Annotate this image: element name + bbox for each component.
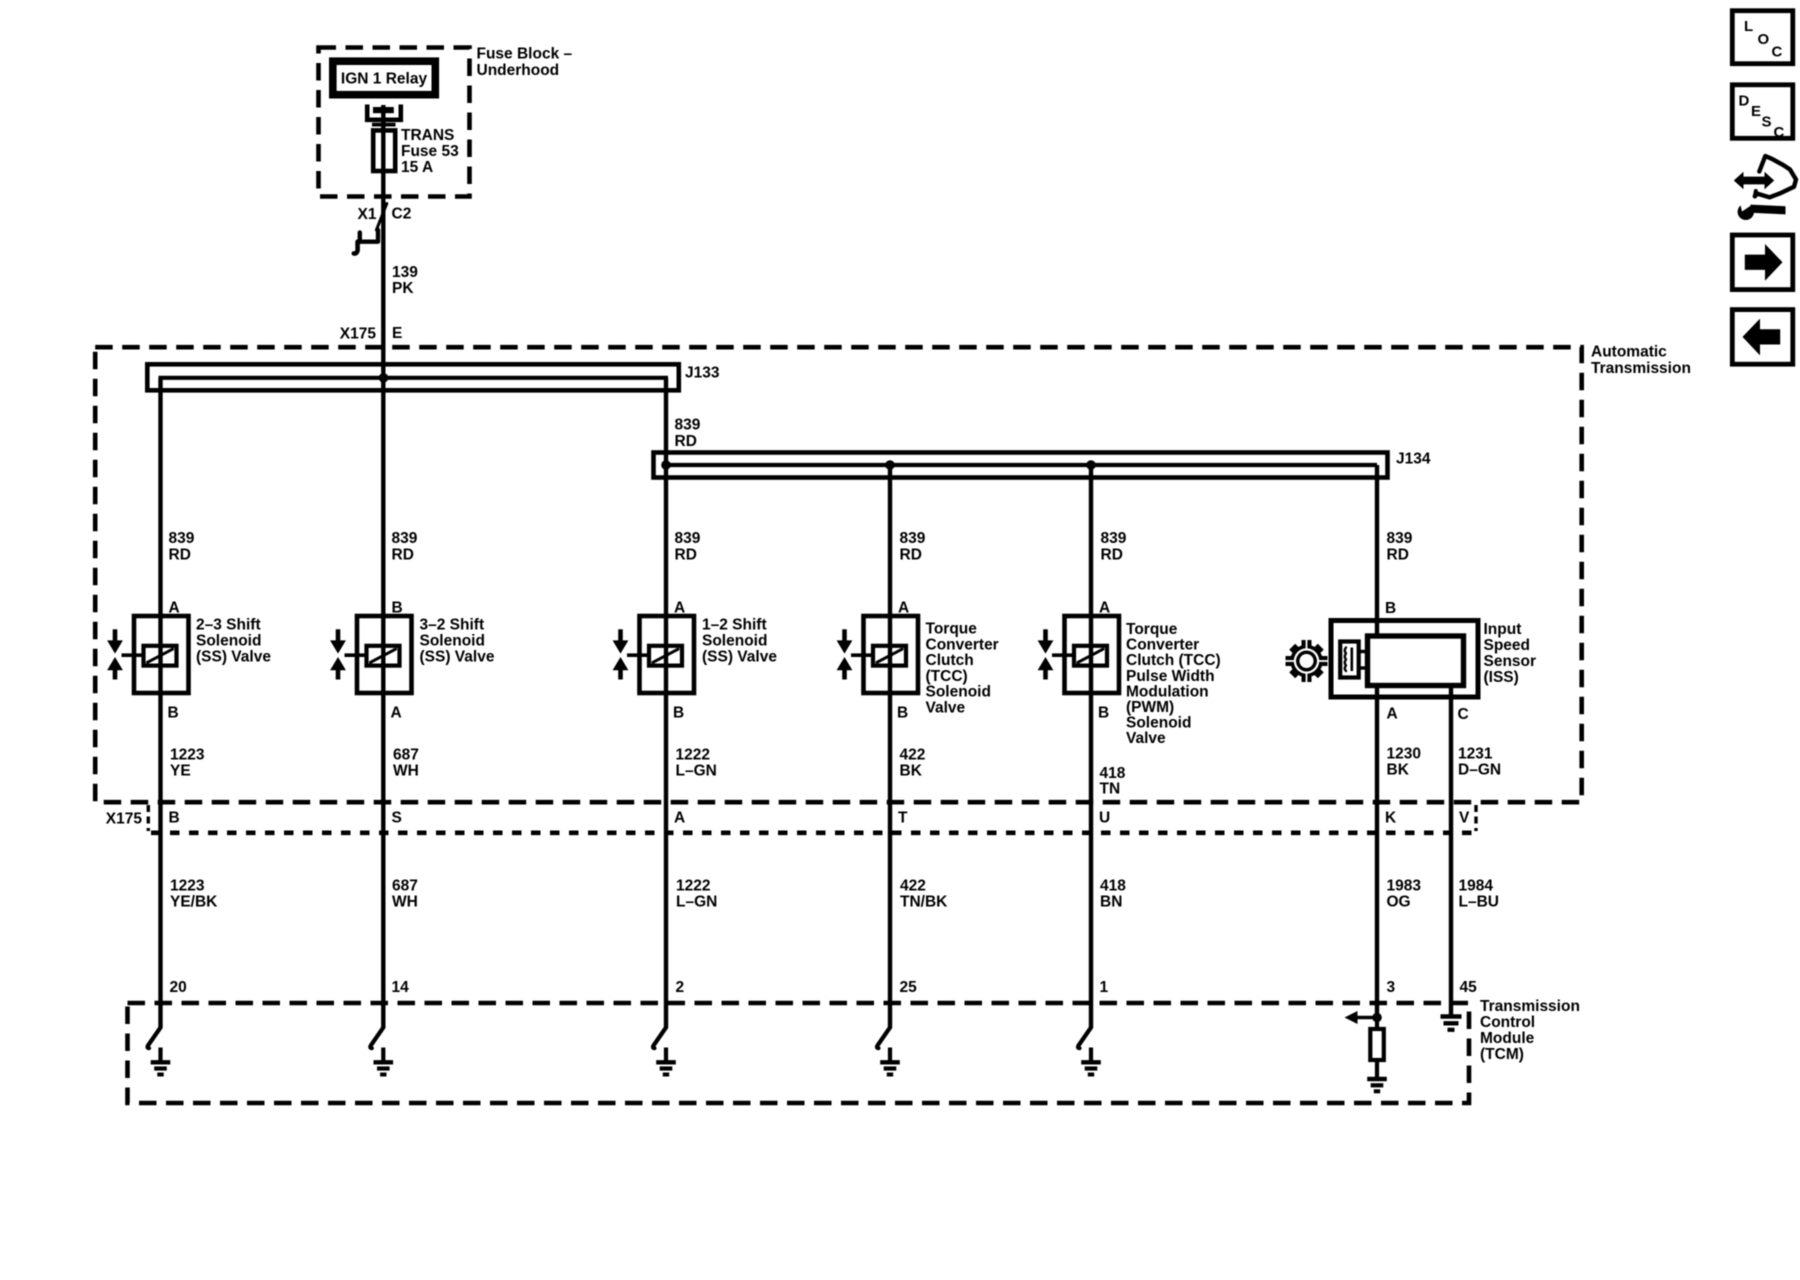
svg-text:Module: Module — [1480, 1030, 1535, 1047]
svg-text:PK: PK — [392, 280, 414, 297]
svg-text:C: C — [1772, 43, 1783, 60]
wire 1231/1984 from ISS pin C to TCM pin 45 — [1449, 684, 1453, 1016]
1-2 shift solenoid: body box — [640, 616, 695, 693]
connector hook symbol — [359, 230, 378, 242]
TCM pin 3 internal: pull-up resistor — [1375, 1018, 1379, 1030]
ISS inner body box — [1368, 636, 1464, 686]
svg-text:S: S — [1762, 113, 1772, 130]
svg-text:418: 418 — [1100, 765, 1126, 782]
2-3 shift solenoid: coil element — [144, 646, 177, 666]
svg-text:TN/BK: TN/BK — [900, 894, 948, 911]
svg-text:(ISS): (ISS) — [1484, 669, 1519, 686]
svg-text:(PWM): (PWM) — [1126, 699, 1174, 716]
transmission control module (TCM) dashed box — [128, 1003, 1470, 1103]
svg-text:1230: 1230 — [1387, 746, 1421, 763]
TCM driver circuit 14: ground symbol — [381, 1048, 385, 1063]
svg-text:BK: BK — [1387, 762, 1410, 779]
svg-text:A: A — [391, 705, 402, 722]
svg-text:Underhood: Underhood — [477, 62, 560, 79]
relay IGN 1 Relay — [333, 61, 436, 94]
fuse TRANS Fuse 53 15 A — [372, 123, 396, 127]
svg-text:Fuse Block –: Fuse Block – — [477, 46, 573, 63]
svg-text:Solenoid: Solenoid — [196, 633, 261, 650]
svg-text:L–GN: L–GN — [676, 763, 717, 780]
TCM driver circuit 1: switch contact — [1078, 1028, 1091, 1049]
svg-text:O: O — [1758, 31, 1770, 48]
svg-text:Converter: Converter — [926, 636, 999, 653]
2-3 shift solenoid: hydraulic valve symbol — [113, 629, 118, 642]
svg-text:Sensor: Sensor — [1484, 653, 1537, 670]
svg-text:Input: Input — [1484, 621, 1522, 638]
svg-text:RD: RD — [169, 547, 191, 564]
connector X175 right end cap — [1474, 805, 1477, 831]
junction J134 left — [661, 460, 671, 470]
sidebar icon: forward arrow button — [1732, 235, 1793, 290]
TCM pin 45 internal: ground symbol — [1441, 1014, 1462, 1019]
svg-text:C2: C2 — [392, 205, 412, 222]
svg-text:418: 418 — [1100, 878, 1126, 895]
svg-text:Fuse 53: Fuse 53 — [401, 143, 459, 160]
svg-text:B: B — [168, 705, 179, 722]
wire: relay through fuse to connector X1 — [381, 105, 385, 347]
svg-text:(TCC): (TCC) — [926, 668, 968, 685]
ISS outer housing box — [1331, 621, 1478, 698]
svg-text:422: 422 — [900, 878, 926, 895]
svg-text:Transmission: Transmission — [1591, 360, 1691, 377]
wire circuit 1222 (1-2 shift solenoid branch, J133 to J134 to TCM) — [664, 378, 668, 1028]
svg-text:Pulse Width: Pulse Width — [1126, 668, 1215, 685]
svg-text:X1: X1 — [358, 206, 377, 223]
svg-text:L: L — [1744, 18, 1753, 35]
wire 839 RD to ISS pin B — [1375, 465, 1379, 638]
svg-text:Solenoid: Solenoid — [1126, 715, 1191, 732]
svg-text:L–GN: L–GN — [676, 894, 717, 911]
svg-text:U: U — [1099, 810, 1110, 827]
svg-text:3: 3 — [1387, 979, 1396, 996]
svg-text:3–2 Shift: 3–2 Shift — [420, 617, 485, 634]
svg-text:(TCM): (TCM) — [1480, 1046, 1524, 1063]
svg-text:(SS) Valve: (SS) Valve — [196, 649, 271, 666]
wire 1230/1983 from ISS pin A to TCM pin 3 — [1375, 684, 1379, 1018]
svg-text:OG: OG — [1387, 894, 1411, 911]
svg-text:E: E — [392, 325, 402, 342]
wire circuit 418 (TCC PWM solenoid branch) — [1089, 465, 1093, 1028]
svg-text:Automatic: Automatic — [1591, 344, 1667, 361]
svg-text:1983: 1983 — [1387, 878, 1422, 895]
svg-text:BN: BN — [1100, 894, 1122, 911]
TCM driver circuit 20: ground symbol — [158, 1048, 162, 1063]
TCM driver circuit 14: switch contact — [370, 1028, 383, 1049]
svg-text:WH: WH — [393, 763, 419, 780]
TCC solenoid: coil stub line — [851, 653, 873, 657]
wire circuit 422 (TCC solenoid branch) — [888, 465, 892, 1028]
relay output terminal (female/male) — [367, 105, 401, 120]
junction J134 at 422 branch — [885, 460, 895, 470]
svg-text:15 A: 15 A — [401, 159, 433, 176]
svg-text:B: B — [1098, 705, 1109, 722]
svg-text:Converter: Converter — [1126, 637, 1199, 654]
svg-text:839: 839 — [675, 417, 701, 434]
svg-text:D: D — [1739, 93, 1750, 110]
sidebar icon: DESC button — [1732, 85, 1793, 139]
TCM pin 3 internal: junction — [1372, 1013, 1382, 1023]
svg-text:X175: X175 — [340, 326, 377, 343]
TCM driver circuit 20: switch contact — [148, 1028, 161, 1049]
svg-text:422: 422 — [900, 747, 926, 764]
svg-text:A: A — [1387, 706, 1398, 723]
TCM driver circuit 1: ground symbol — [1089, 1048, 1093, 1063]
junction J134 at 418 branch — [1086, 460, 1096, 470]
svg-text:V: V — [1459, 810, 1470, 827]
svg-text:1231: 1231 — [1458, 746, 1493, 763]
fuse block - underhood dashed box — [319, 48, 470, 197]
TCC PWM solenoid: hydraulic valve symbol — [1043, 629, 1048, 642]
input speed sensor (ISS): gear icon — [1286, 640, 1328, 682]
TCC solenoid: hydraulic valve symbol — [842, 629, 847, 642]
svg-text:BK: BK — [900, 763, 923, 780]
svg-text:T: T — [898, 810, 908, 827]
sidebar icon: LOC button — [1732, 11, 1793, 64]
svg-text:2: 2 — [676, 979, 685, 996]
svg-text:20: 20 — [170, 979, 187, 996]
svg-text:Control: Control — [1480, 1014, 1535, 1031]
TCM driver circuit 25: switch contact — [877, 1028, 890, 1049]
svg-text:25: 25 — [900, 979, 918, 996]
svg-text:1: 1 — [1100, 979, 1109, 996]
svg-text:WH: WH — [392, 894, 418, 911]
svg-text:1222: 1222 — [676, 878, 710, 895]
svg-text:839: 839 — [169, 530, 195, 547]
svg-text:D–GN: D–GN — [1458, 762, 1501, 779]
svg-text:B: B — [169, 810, 180, 827]
2-3 shift solenoid: body box — [134, 616, 189, 693]
svg-text:B: B — [1385, 600, 1396, 617]
svg-text:14: 14 — [392, 979, 410, 996]
svg-text:C: C — [1774, 124, 1785, 141]
TCC PWM solenoid: coil element — [1074, 646, 1107, 666]
svg-text:(SS) Valve: (SS) Valve — [702, 649, 777, 666]
svg-text:K: K — [1385, 810, 1397, 827]
splice pack J134 — [654, 453, 1388, 478]
svg-text:Valve: Valve — [926, 700, 966, 717]
svg-text:Transmission: Transmission — [1480, 998, 1580, 1015]
svg-text:(SS) Valve: (SS) Valve — [420, 649, 495, 666]
connector X175 left end cap — [147, 805, 150, 831]
3-2 shift solenoid: hydraulic valve symbol — [336, 629, 341, 642]
svg-text:X175: X175 — [106, 811, 143, 828]
svg-text:1223: 1223 — [170, 747, 205, 764]
svg-text:1223: 1223 — [170, 878, 205, 895]
3-2 shift solenoid: body box — [357, 616, 412, 693]
wire circuit 687 (3-2 shift solenoid branch) — [381, 347, 385, 1028]
svg-text:1222: 1222 — [676, 747, 710, 764]
sidebar icon: back arrow button — [1732, 310, 1793, 365]
TCC PWM solenoid: coil stub line — [1052, 653, 1074, 657]
2-3 shift solenoid: coil stub line — [122, 653, 144, 657]
svg-text:E: E — [1751, 103, 1761, 120]
TCC PWM solenoid: body box — [1065, 616, 1120, 693]
svg-text:1984: 1984 — [1459, 878, 1494, 895]
TCC solenoid: body box — [864, 616, 919, 693]
TCM pin 3 internal: ground symbol — [1375, 1060, 1379, 1079]
svg-text:1–2 Shift: 1–2 Shift — [702, 617, 767, 634]
wire circuit 1223 (2-3 shift solenoid branch) — [158, 378, 162, 1028]
svg-text:Solenoid: Solenoid — [926, 684, 991, 701]
svg-text:RD: RD — [1387, 547, 1409, 564]
svg-text:B: B — [897, 705, 908, 722]
ISS coil link lines — [1359, 650, 1368, 653]
svg-text:YE: YE — [170, 763, 191, 780]
svg-text:Solenoid: Solenoid — [420, 633, 485, 650]
svg-text:RD: RD — [675, 433, 697, 450]
ISS pickup coil element — [1340, 642, 1359, 678]
TCM driver circuit 2: switch contact — [653, 1028, 666, 1049]
svg-text:Clutch: Clutch — [926, 652, 974, 669]
connector X175 row: dotted lower line — [151, 830, 1477, 835]
3-2 shift solenoid: coil element — [367, 646, 400, 666]
svg-text:L–BU: L–BU — [1459, 894, 1499, 911]
3-2 shift solenoid: coil stub line — [345, 653, 367, 657]
splice pack J133 — [147, 364, 679, 390]
TCM driver circuit 2: ground symbol — [664, 1048, 668, 1063]
svg-text:A: A — [674, 810, 685, 827]
svg-text:687: 687 — [393, 747, 419, 764]
1-2 shift solenoid: coil stub line — [627, 653, 649, 657]
svg-text:TN: TN — [1100, 781, 1121, 798]
svg-text:IGN 1 Relay: IGN 1 Relay — [341, 71, 428, 88]
TCC solenoid: coil element — [873, 646, 906, 666]
svg-text:Torque: Torque — [926, 621, 978, 638]
svg-text:839: 839 — [675, 530, 701, 547]
1-2 shift solenoid: coil element — [649, 646, 682, 666]
svg-text:Speed: Speed — [1484, 637, 1531, 654]
svg-text:139: 139 — [392, 264, 418, 281]
TCM driver circuit 25: ground symbol — [888, 1048, 892, 1063]
svg-text:Clutch (TCC): Clutch (TCC) — [1126, 652, 1221, 669]
svg-text:Modulation: Modulation — [1126, 683, 1209, 700]
svg-text:Solenoid: Solenoid — [702, 633, 767, 650]
svg-text:RD: RD — [900, 547, 922, 564]
svg-text:Valve: Valve — [1126, 730, 1166, 747]
svg-text:839: 839 — [1101, 530, 1127, 547]
svg-text:687: 687 — [392, 878, 418, 895]
svg-text:YE/BK: YE/BK — [170, 894, 218, 911]
connector X1/C2 slash — [376, 204, 386, 231]
svg-text:2–3 Shift: 2–3 Shift — [196, 617, 261, 634]
svg-text:TRANS: TRANS — [401, 127, 454, 144]
svg-text:S: S — [392, 810, 402, 827]
svg-text:RD: RD — [392, 547, 414, 564]
svg-text:839: 839 — [900, 530, 926, 547]
svg-text:RD: RD — [1101, 547, 1123, 564]
svg-text:C: C — [1458, 706, 1469, 723]
TCM pin 3 internal: signal arrow — [1356, 1016, 1377, 1020]
svg-text:Torque: Torque — [1126, 621, 1178, 638]
svg-text:J133: J133 — [685, 365, 720, 382]
svg-text:839: 839 — [1387, 530, 1413, 547]
junction on J133 — [379, 373, 389, 383]
svg-text:839: 839 — [392, 530, 418, 547]
svg-text:45: 45 — [1460, 979, 1478, 996]
svg-text:RD: RD — [675, 547, 697, 564]
svg-text:B: B — [673, 705, 684, 722]
sidebar icon: wiring repair (arrow + wrench) — [1734, 156, 1796, 220]
1-2 shift solenoid: hydraulic valve symbol — [618, 629, 623, 642]
svg-text:J134: J134 — [1396, 451, 1431, 468]
automatic transmission dashed box — [95, 347, 1582, 802]
